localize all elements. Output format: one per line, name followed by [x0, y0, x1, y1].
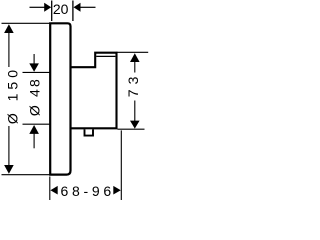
svg-text:Ø 150: Ø 150	[5, 66, 21, 124]
svg-text:Ø 48: Ø 48	[26, 77, 42, 116]
svg-text:20: 20	[53, 1, 69, 17]
svg-text:73: 73	[125, 72, 141, 98]
svg-text:68-96: 68-96	[61, 183, 115, 199]
